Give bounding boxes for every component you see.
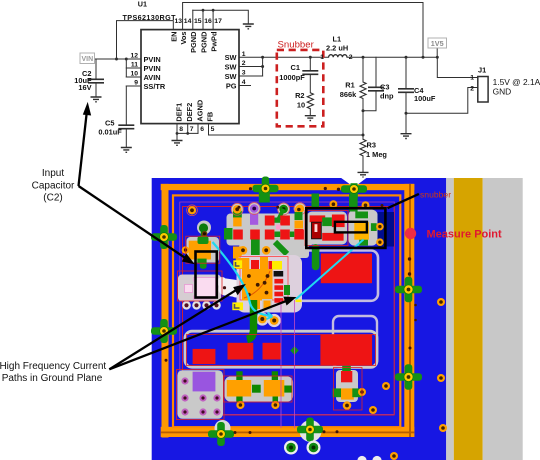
svg-text:C3: C3: [380, 82, 389, 91]
pink component silk: [178, 275, 221, 302]
node VIN/EN junction: [115, 58, 118, 61]
wire pin3 stub: [239, 75, 263, 77]
node R1 junction: [362, 56, 365, 59]
purple dots box: [177, 370, 223, 419]
svg-text:TPS62130RGT: TPS62130RGT: [123, 13, 177, 22]
svg-text:AGND: AGND: [195, 99, 204, 121]
wire snubber C1 branch: [309, 57, 311, 71]
node J1 gnd junction: [405, 112, 408, 115]
wire SW2/SW3 bus: [262, 57, 264, 76]
frame orange band right: [404, 184, 414, 437]
snubber left silk: [307, 212, 347, 245]
frame inner thin orange rect: [173, 195, 400, 427]
snubber edge pads: [295, 206, 303, 214]
svg-text:PGND: PGND: [189, 31, 198, 53]
resistor R1: [360, 82, 366, 99]
svg-text:1: 1: [320, 54, 324, 61]
wire pin2 stub: [239, 66, 263, 68]
wire PwPd stub: [212, 10, 214, 29]
wire PGND2 stub: [202, 10, 204, 29]
svg-text:8: 8: [179, 126, 183, 133]
wire DEF2 stub: [187, 124, 189, 134]
wire C5 branch: [125, 86, 127, 125]
finger pads: [233, 211, 242, 218]
svg-text:PGND: PGND: [199, 31, 208, 53]
svg-text:High Frequency Current: High Frequency Current: [0, 361, 106, 372]
svg-text:GND: GND: [493, 86, 512, 96]
QFN top pads: [236, 258, 250, 269]
wire PVIN/AVIN bus: [125, 59, 127, 77]
cyan trace line long: [296, 240, 364, 300]
red plane rect center: [321, 254, 372, 284]
cross bottom2: [297, 418, 323, 442]
svg-text:PwPd: PwPd: [210, 31, 219, 52]
cross right2: [395, 364, 422, 389]
QFN bottom pads: [252, 301, 261, 310]
resistor R2: [307, 93, 313, 109]
cyan curvy line: [213, 242, 271, 316]
wire SW rail after L1: [347, 56, 437, 58]
black highlight rect snubber small: [335, 222, 367, 233]
node Vos junction: [422, 56, 425, 59]
yellow tick near arrowhead: [296, 300, 302, 303]
svg-text:2: 2: [242, 60, 246, 67]
op-amp U1 TPS62130RGT body: [141, 30, 239, 124]
svg-text:9: 9: [134, 80, 138, 87]
gray courtyard A (bottom zone): [185, 331, 377, 367]
svg-text:SW: SW: [225, 53, 237, 62]
svg-text:10: 10: [130, 71, 138, 78]
arrow to IC ground path: [109, 289, 237, 369]
ground R3: [358, 172, 369, 177]
svg-text:SS/TR: SS/TR: [144, 82, 166, 91]
svg-text:1: 1: [242, 51, 246, 58]
node C3/R1 junction: [362, 109, 365, 112]
svg-text:R3: R3: [367, 140, 376, 149]
wire AGND stub: [197, 124, 199, 134]
svg-text:C5: C5: [105, 118, 114, 127]
cross left1: [151, 225, 177, 249]
via near C2: [187, 205, 198, 216]
svg-text:PVIN: PVIN: [144, 64, 161, 73]
wire to J1 pin1: [437, 57, 478, 77]
svg-text:5: 5: [211, 126, 215, 133]
white propeller pad: [217, 277, 242, 298]
svg-text:2: 2: [349, 54, 353, 61]
svg-text:dnp: dnp: [380, 91, 394, 100]
wire PGND rail to ground: [193, 10, 249, 24]
cross top2: [341, 177, 367, 201]
navy inner region: [378, 212, 395, 247]
wire FB net: [209, 124, 364, 135]
arrow to ground plane path: [109, 301, 287, 370]
cross left2: [151, 319, 177, 343]
QFN right pads: [274, 271, 284, 277]
board edge gray band: [446, 178, 454, 460]
wire R1 branch: [362, 57, 364, 82]
red plane rect bottom big: [320, 335, 372, 365]
red pad bottom 1: [193, 349, 216, 364]
yellow L marks: [233, 260, 242, 268]
pink small pad: [276, 225, 281, 230]
wire C2 branch: [95, 59, 97, 79]
svg-text:16V: 16V: [78, 83, 91, 92]
lavender courtyard B (center red zone): [255, 251, 378, 301]
wire C3 branch: [375, 57, 377, 87]
wire pin11 stub: [126, 67, 141, 69]
svg-text:1000pF: 1000pF: [279, 73, 305, 82]
wire VIN rail to PVIN: [95, 58, 141, 60]
pink component body: [194, 278, 216, 300]
wire bottom bus: [177, 132, 198, 134]
measure point dot: [405, 228, 416, 239]
cross right1: [395, 277, 422, 302]
svg-text:1 Meg: 1 Meg: [366, 150, 387, 159]
capacitor C5: [118, 125, 134, 129]
svg-text:11: 11: [131, 62, 138, 69]
svg-text:R1: R1: [345, 80, 354, 89]
mid vias: [239, 246, 248, 255]
svg-text:1: 1: [470, 75, 474, 82]
finger vias: [233, 205, 242, 214]
frame dark line bottom: [161, 432, 415, 434]
small drill dots: [165, 187, 417, 434]
node 1V5 junction: [436, 56, 439, 59]
capacitor C4: [398, 89, 414, 93]
ground R2: [305, 116, 316, 121]
inductor L1: [329, 55, 347, 58]
ground PGND: [243, 24, 254, 29]
C2 green trace to via: [201, 228, 207, 239]
svg-text:J1: J1: [478, 66, 486, 75]
inner layer purple outline: [180, 202, 394, 415]
wire R2 to ground: [309, 109, 311, 116]
board ground plane (blue): [152, 178, 447, 460]
green trace from cross354: [349, 194, 358, 212]
svg-text:VIN: VIN: [81, 56, 93, 63]
node C4 junction: [405, 56, 408, 59]
snubber maze pads: [310, 215, 326, 222]
svg-text:U1: U1: [138, 0, 147, 8]
net label 1V5: [428, 38, 447, 48]
svg-text:(C2): (C2): [43, 192, 62, 203]
CROSSES (thermal vias): [215, 420, 231, 436]
component caps orange bodies: [227, 380, 251, 397]
wire C5 lower: [125, 129, 127, 148]
QFN pale courtyard silk: [237, 255, 303, 313]
green traces below row2: [251, 240, 260, 256]
capacitor C3: [368, 87, 384, 91]
component C2 (orange body): [189, 241, 211, 260]
node SW2 junction: [261, 56, 264, 59]
svg-text:866k: 866k: [340, 90, 357, 99]
red pad bottom 2: [228, 343, 254, 360]
svg-text:Capacitor: Capacitor: [32, 180, 75, 191]
svg-text:10: 10: [297, 100, 305, 109]
line to snubber text: [388, 194, 419, 208]
scattered vias right/bottom: [284, 298, 447, 460]
cross bottom1: [208, 422, 234, 446]
frame dark line right: [409, 184, 411, 437]
resistor R3: [360, 139, 366, 156]
wire DEF1 stub: [176, 124, 178, 141]
donut row below pink: [182, 301, 221, 310]
green diamond: [290, 346, 298, 354]
wire R1 bottom to FB node: [362, 99, 364, 140]
snubber dashed box: [277, 50, 324, 126]
svg-text:0.01uF: 0.01uF: [98, 127, 122, 136]
QFN red courtyard: [240, 257, 288, 301]
C2 pad bottom: [197, 259, 206, 264]
frame orange band top: [161, 184, 415, 190]
connector J1: [478, 77, 488, 103]
wire C3 bottom: [363, 91, 376, 111]
wire pin10 stub: [126, 76, 141, 78]
arrow to C2 ground: [79, 112, 87, 186]
svg-text:EN: EN: [170, 32, 179, 42]
C2 input cap silk blob: [197, 221, 211, 235]
red pads row1: [265, 216, 275, 226]
svg-text:PVIN: PVIN: [144, 55, 161, 64]
red pads row2: [233, 230, 243, 240]
node DEF2 junction: [186, 132, 189, 135]
svg-text:16: 16: [204, 18, 212, 25]
node PGND junction: [202, 9, 205, 12]
wire J1 pin2 to ground net: [406, 88, 478, 114]
node SW3 junction: [261, 65, 264, 68]
svg-text:6: 6: [200, 126, 204, 133]
net label VIN: [80, 53, 95, 64]
wire Vos net top: [183, 3, 423, 58]
QFN body U1: [242, 269, 273, 301]
frame orange band bottom: [161, 427, 415, 437]
red component outlines: [177, 211, 376, 420]
svg-text:DEF2: DEF2: [185, 103, 194, 122]
black highlight rect C2: [196, 252, 217, 298]
white notch over cross top2: [341, 178, 351, 185]
svg-text:SW: SW: [225, 63, 237, 72]
svg-text:13: 13: [175, 18, 183, 25]
ground C4: [401, 134, 412, 139]
frame orange band left: [162, 184, 169, 438]
svg-text:15: 15: [194, 18, 202, 25]
wire EN net: [117, 21, 174, 59]
black highlight rect snubber big: [306, 208, 385, 248]
red pad bottom 3: [263, 343, 281, 360]
green trace below snubber: [312, 248, 320, 267]
component R vertical below A: [336, 370, 358, 402]
svg-text:100uF: 100uF: [414, 94, 436, 103]
wire C1 to R2: [309, 74, 311, 93]
node PVIN junction: [125, 58, 128, 61]
svg-text:14: 14: [184, 18, 192, 25]
board red outline: [183, 207, 395, 416]
top-center green trace to cross: [259, 188, 270, 203]
svg-text:7: 7: [190, 126, 194, 133]
node FB junction: [362, 134, 365, 137]
svg-text:R2: R2: [295, 91, 304, 100]
svg-text:12: 12: [130, 53, 138, 60]
cross top1: [253, 177, 279, 203]
svg-text:DEF1: DEF1: [175, 103, 184, 122]
svg-text:Vos: Vos: [179, 32, 188, 45]
node PwPd junction: [212, 9, 215, 12]
svg-text:2: 2: [470, 85, 474, 92]
central silk blob: [227, 214, 314, 246]
svg-text:1V5: 1V5: [431, 39, 444, 48]
svg-text:Measure Point: Measure Point: [427, 229, 503, 241]
capacitor C2: [88, 79, 104, 83]
wire C2 lower: [95, 83, 97, 97]
svg-text:Input: Input: [42, 168, 64, 179]
junction dots: [115, 9, 439, 137]
wire PGND bus: [192, 10, 194, 29]
wire C4 branch: [405, 57, 407, 89]
svg-text:L1: L1: [333, 35, 342, 44]
svg-text:Paths in Ground Plane: Paths in Ground Plane: [2, 373, 103, 384]
wire pin4 PG stub: [239, 85, 251, 87]
svg-text:17: 17: [214, 18, 222, 25]
ground DEF1: [172, 141, 183, 146]
green trace from via3: [278, 209, 284, 221]
capacitor C1: [302, 71, 318, 75]
arrow to PCB C2: [79, 186, 187, 259]
green trace down from QFN: [247, 300, 254, 340]
svg-text:PG: PG: [226, 82, 237, 91]
snubber right silk: [349, 210, 378, 246]
svg-text:3: 3: [242, 70, 246, 77]
svg-text:SW: SW: [225, 72, 237, 81]
lavender courtyard C: [333, 316, 377, 368]
svg-text:2.2 uH: 2.2 uH: [326, 43, 348, 52]
wire 1V5 stub: [436, 48, 438, 57]
wire C4 bottom to ground: [405, 92, 407, 133]
wire R3 to ground: [362, 156, 364, 173]
ground C2: [91, 97, 102, 102]
svg-text:Snubber: Snubber: [278, 40, 315, 51]
wire SW rail: [239, 56, 329, 58]
board gold band: [454, 178, 483, 460]
svg-text:snubber: snubber: [420, 190, 451, 200]
svg-text:FB: FB: [206, 112, 215, 122]
svg-text:4: 4: [242, 79, 246, 86]
node DEF1 junction: [176, 132, 179, 135]
ground C5: [121, 148, 132, 153]
board outer gray band: [483, 178, 523, 460]
C2 pad top: [198, 237, 209, 245]
node C1 junction: [309, 56, 312, 59]
bottom caps silk: [225, 376, 294, 401]
snubber vias: [329, 200, 337, 208]
wire pin9 SS/TR stub: [126, 85, 141, 87]
svg-text:C1: C1: [291, 63, 300, 72]
svg-text:AVIN: AVIN: [144, 73, 161, 82]
